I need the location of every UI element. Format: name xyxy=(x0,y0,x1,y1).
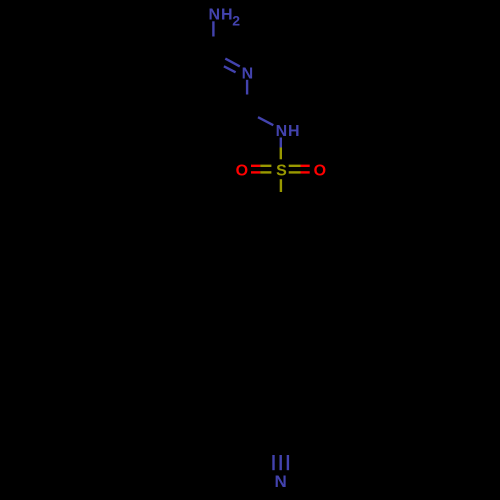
nitrile C#N line 2 (N half) xyxy=(280,455,282,470)
bond S=O left top line (S half) xyxy=(260,165,271,167)
svg-text:NH: NH xyxy=(276,123,301,140)
bond S=O left top line (O half) xyxy=(251,165,260,167)
svg-text:N: N xyxy=(274,472,286,491)
bond S-CH2 (S half) xyxy=(280,179,282,192)
bond S=O right top line (O half) xyxy=(301,165,310,167)
nitrile C#N line 1 (N half) xyxy=(272,455,274,470)
bond NH2-C6 (N half) xyxy=(212,21,214,36)
bond C6=N1 inner line (N half) xyxy=(224,66,236,72)
bond S=O left bottom line (O half) xyxy=(251,171,260,173)
nitrile C#N line 3 (N half) xyxy=(287,455,289,470)
bond NH-S (S half) xyxy=(280,148,282,160)
svg-text:N: N xyxy=(242,65,254,82)
svg-text:NH: NH xyxy=(209,6,234,23)
bond C6=N1 main line (N half) xyxy=(225,59,240,67)
svg-text:O: O xyxy=(314,162,326,179)
bond S=O right bottom line (S half) xyxy=(289,171,301,173)
bond C2-NH (N half) xyxy=(258,117,273,125)
svg-text:O: O xyxy=(236,162,248,179)
svg-text:2: 2 xyxy=(232,12,240,28)
bond S=O left bottom line (S half) xyxy=(260,171,271,173)
svg-text:S: S xyxy=(276,162,287,179)
bond NH-S (N half) xyxy=(280,138,282,148)
bond N1-C2 (N half) xyxy=(246,80,248,95)
bond S=O right bottom line (O half) xyxy=(301,171,310,173)
bond S=O right top line (S half) xyxy=(289,165,301,167)
